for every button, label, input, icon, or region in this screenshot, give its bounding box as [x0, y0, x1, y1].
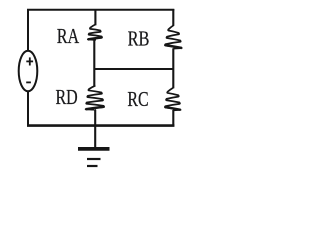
svg-text:RD: RD	[56, 85, 78, 109]
svg-text:RA: RA	[57, 24, 80, 48]
svg-text:RB: RB	[128, 26, 150, 50]
svg-text:RC: RC	[127, 87, 148, 111]
